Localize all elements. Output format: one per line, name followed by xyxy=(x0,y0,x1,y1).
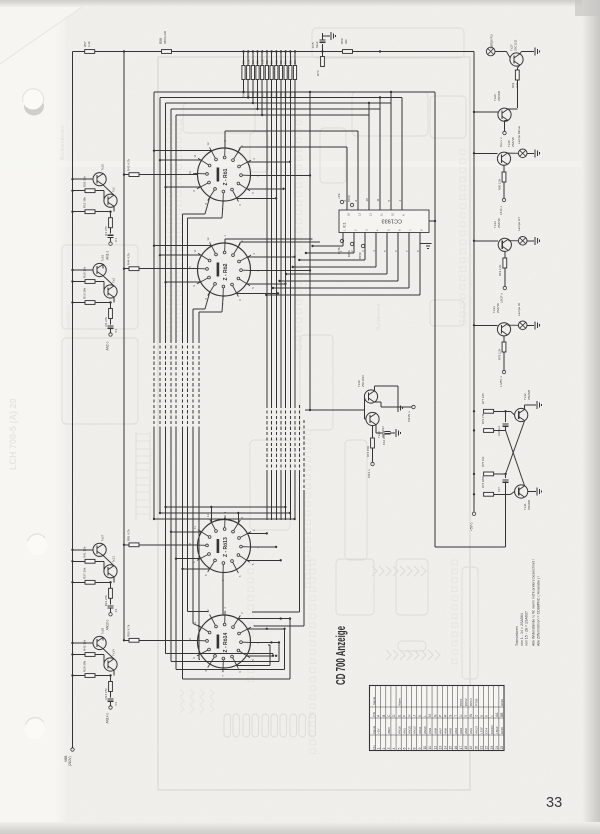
svg-text:2SC828: 2SC828 xyxy=(527,499,531,510)
svg-text:AN6: AN6 xyxy=(444,728,448,734)
svg-text:4: 4 xyxy=(392,747,396,749)
svg-text:2: 2 xyxy=(382,747,386,749)
svg-text:R73: R73 xyxy=(316,70,320,76)
svg-text:BP02: BP02 xyxy=(347,195,351,202)
svg-text:13: 13 xyxy=(438,746,442,750)
svg-text:Tx15: Tx15 xyxy=(101,164,105,171)
svg-text:+5V: +5V xyxy=(377,727,381,734)
svg-text:2SC1211: 2SC1211 xyxy=(514,39,518,51)
svg-text:16: 16 xyxy=(347,213,351,216)
svg-text:17: 17 xyxy=(459,746,463,750)
svg-text:Transistoren: Transistoren xyxy=(515,626,519,646)
svg-text:R78 2,2k: R78 2,2k xyxy=(498,348,502,360)
svg-text:BP00: BP00 xyxy=(347,250,351,257)
svg-text:AN1: AN1 xyxy=(469,728,473,734)
svg-text:25: 25 xyxy=(500,746,504,750)
svg-text:R76 27k: R76 27k xyxy=(481,413,485,424)
svg-text:GND: GND xyxy=(500,726,504,734)
svg-text:C1: C1 xyxy=(114,238,118,242)
svg-text:PIN: PIN xyxy=(372,712,376,717)
svg-text:Z - Rö1: Z - Rö1 xyxy=(223,168,229,185)
svg-text:33: 33 xyxy=(546,795,562,811)
svg-text:11: 11 xyxy=(376,198,380,201)
svg-text:C1: C1 xyxy=(114,608,118,612)
svg-text:24: 24 xyxy=(495,746,499,750)
svg-text:Alle Ziffernröhren = CD88PNC: Alle Ziffernröhren = CD88PNC ( Hivarube … xyxy=(537,576,541,646)
svg-text:11: 11 xyxy=(193,154,197,157)
svg-text:R43 4,7k: R43 4,7k xyxy=(127,159,131,172)
svg-text:R80 2,2k: R80 2,2k xyxy=(498,178,502,190)
svg-text:AN13: AN13 xyxy=(474,726,478,734)
svg-text:10: 10 xyxy=(188,266,192,270)
svg-text:16: 16 xyxy=(454,746,458,750)
svg-text:Z - Rö14: Z - Rö14 xyxy=(223,633,229,653)
svg-text:Signal: Signal xyxy=(372,697,376,705)
svg-text:Z - Rö2: Z - Rö2 xyxy=(223,263,229,280)
svg-text:2,2k: 2,2k xyxy=(515,82,519,88)
svg-text:AN5: AN5 xyxy=(449,728,453,734)
svg-text:12: 12 xyxy=(206,142,210,146)
svg-text:PLTA: PLTA xyxy=(337,247,341,254)
svg-text:Signal: Signal xyxy=(372,726,376,734)
svg-text:39k: 39k xyxy=(279,59,283,64)
svg-text:L M5Y o: L M5Y o xyxy=(499,376,503,387)
svg-text:R41 12k: R41 12k xyxy=(83,546,87,558)
svg-text:R2 27k: R2 27k xyxy=(104,316,108,326)
svg-text:AN1: AN1 xyxy=(402,728,406,734)
svg-text:Z - Rö13: Z - Rö13 xyxy=(223,537,229,557)
svg-text:Alarm: Alarm xyxy=(397,697,401,706)
svg-text:15k: 15k xyxy=(284,59,288,64)
svg-text:11: 11 xyxy=(193,249,197,252)
svg-text:21: 21 xyxy=(480,746,484,750)
svg-text:R75 10k: R75 10k xyxy=(481,456,485,467)
svg-text:15k: 15k xyxy=(270,59,274,64)
svg-text:AN14 o: AN14 o xyxy=(106,713,110,724)
svg-text:CR4 o: CR4 o xyxy=(367,469,371,478)
svg-text:10: 10 xyxy=(188,542,192,546)
svg-text:2SC828: 2SC828 xyxy=(497,90,501,101)
svg-text:(210V): (210V) xyxy=(68,756,72,766)
svg-text:AN15: AN15 xyxy=(408,726,412,734)
svg-text:C17: C17 xyxy=(497,487,501,492)
svg-text:L51F: L51F xyxy=(480,727,484,734)
svg-text:GND: GND xyxy=(500,698,504,706)
svg-text:CR4: CR4 xyxy=(485,728,489,734)
svg-text:Tx1: Tx1 xyxy=(112,187,116,192)
svg-text:62uF: 62uF xyxy=(315,41,319,48)
svg-text:10: 10 xyxy=(188,638,192,642)
svg-text:AN9: AN9 xyxy=(428,728,432,734)
svg-text:15k: 15k xyxy=(246,59,250,64)
svg-text:AN11: AN11 xyxy=(418,726,422,734)
svg-text:10: 10 xyxy=(365,198,369,202)
svg-text:L5GF: L5GF xyxy=(495,726,499,734)
svg-text:L: L xyxy=(423,715,427,717)
svg-text:R77 220: R77 220 xyxy=(481,393,485,404)
svg-text:20: 20 xyxy=(474,746,478,750)
svg-text:R72 15A: R72 15A xyxy=(366,446,370,457)
svg-text:BP01: BP01 xyxy=(459,698,463,706)
svg-text:L51F o: L51F o xyxy=(499,205,503,215)
svg-text:9: 9 xyxy=(418,747,422,749)
svg-text:CD 700 Anzeige: CD 700 Anzeige xyxy=(334,626,348,685)
svg-text:7: 7 xyxy=(408,747,412,749)
svg-text:CR2N: CR2N xyxy=(490,726,494,734)
svg-text:C1: C1 xyxy=(114,328,118,332)
svg-text:1: 1 xyxy=(377,747,381,749)
svg-text:BP04: BP04 xyxy=(469,698,473,706)
svg-text:12: 12 xyxy=(206,237,210,241)
svg-text:AN13 o: AN13 o xyxy=(106,619,110,630)
svg-text:CR2N o: CR2N o xyxy=(407,411,411,422)
svg-text:CC1933: CC1933 xyxy=(381,218,402,224)
svg-text:22: 22 xyxy=(485,746,489,750)
svg-text:+5V o: +5V o xyxy=(469,522,473,531)
svg-text:R14 27k: R14 27k xyxy=(104,688,108,700)
svg-text:680/4,2W: 680/4,2W xyxy=(163,31,167,44)
svg-text:von 1 - 14 = 2SA564: von 1 - 14 = 2SA564 xyxy=(520,613,524,646)
svg-text:R56 4,7k: R56 4,7k xyxy=(127,624,131,637)
svg-text:AN2 o: AN2 o xyxy=(106,341,110,350)
svg-text:10: 10 xyxy=(391,213,395,216)
svg-text:68k: 68k xyxy=(274,59,278,64)
svg-text:unendlicher: unendlicher xyxy=(66,304,72,330)
svg-text:Buchlandlanten: Buchlandlanten xyxy=(60,125,66,160)
svg-text:T: T xyxy=(454,715,458,717)
svg-text:Tx16: Tx16 xyxy=(101,254,105,261)
svg-text:Tx27: Tx27 xyxy=(101,534,105,541)
svg-text:R42 12k: R42 12k xyxy=(83,639,87,651)
svg-text:10: 10 xyxy=(188,171,192,175)
svg-text:R44 4,7k: R44 4,7k xyxy=(127,253,131,266)
svg-text:15k: 15k xyxy=(260,59,264,64)
svg-text:3: 3 xyxy=(387,747,391,749)
svg-text:14: 14 xyxy=(444,746,448,750)
svg-text:39k: 39k xyxy=(288,59,292,64)
svg-text:R1 27k: R1 27k xyxy=(104,226,108,236)
svg-text:12: 12 xyxy=(206,609,210,613)
svg-text:2SC828: 2SC828 xyxy=(527,389,531,400)
svg-text:PT08: PT08 xyxy=(474,698,478,706)
svg-text:AN2: AN2 xyxy=(464,728,468,734)
svg-text:BP06: BP06 xyxy=(358,252,362,259)
svg-text:R13 27k: R13 27k xyxy=(104,595,108,607)
svg-text:R30 12k: R30 12k xyxy=(83,266,87,278)
svg-text:39k: 39k xyxy=(242,59,246,64)
svg-text:Z: Z xyxy=(474,715,478,717)
svg-text:23: 23 xyxy=(490,746,494,750)
svg-text:350V: 350V xyxy=(387,726,391,734)
svg-text:P: P xyxy=(438,715,442,717)
svg-text:+5%: +5% xyxy=(337,193,341,199)
svg-text:Lampe W: Lampe W xyxy=(517,303,521,316)
svg-text:AN8: AN8 xyxy=(433,728,437,734)
svg-text:Lampe Minus: Lampe Minus xyxy=(517,125,521,144)
svg-text:S: S xyxy=(449,715,453,717)
svg-text:R29 12k: R29 12k xyxy=(83,176,87,188)
svg-text:AN1 o: AN1 o xyxy=(106,251,110,260)
svg-text:11: 11 xyxy=(428,746,432,750)
svg-text:R19 2,2k: R19 2,2k xyxy=(498,264,502,276)
svg-text:LCH 700-5 (A) 20: LCH 700-5 (A) 20 xyxy=(8,398,18,470)
svg-text:Tx14: Tx14 xyxy=(112,649,116,656)
svg-text:AN3: AN3 xyxy=(459,728,463,734)
svg-text:AN16: AN16 xyxy=(397,726,401,734)
svg-text:2,2k: 2,2k xyxy=(87,41,91,47)
svg-text:15k: 15k xyxy=(293,59,297,64)
svg-text:L5GF o: L5GF o xyxy=(500,293,504,303)
svg-text:2SA720: 2SA720 xyxy=(511,137,515,147)
svg-text:BP02: BP02 xyxy=(464,698,468,706)
svg-text:R74 6800: R74 6800 xyxy=(481,475,485,488)
svg-text:2SA720: 2SA720 xyxy=(496,303,500,313)
svg-text:von 15 - 28 = 2SA637: von 15 - 28 = 2SA637 xyxy=(525,611,529,646)
svg-text:12: 12 xyxy=(433,746,437,750)
svg-text:10: 10 xyxy=(423,746,427,750)
svg-text:BB: BB xyxy=(500,713,504,717)
svg-text:13: 13 xyxy=(358,213,362,216)
svg-text:19: 19 xyxy=(469,746,473,750)
svg-text:39k: 39k xyxy=(256,59,260,64)
svg-text:Pin: Pin xyxy=(372,745,376,750)
svg-text:Tx2: Tx2 xyxy=(112,278,116,283)
svg-text:2SC1033: 2SC1033 xyxy=(361,375,365,387)
svg-text:C16 220uF: C16 220uF xyxy=(382,431,386,445)
svg-text:Bundesanst: Bundesanst xyxy=(376,303,382,330)
svg-text:B: B xyxy=(382,715,386,717)
svg-text:Ka:/+ o: Ka:/+ o xyxy=(499,137,503,147)
svg-text:12: 12 xyxy=(369,213,373,216)
svg-text:R28 38k: R28 38k xyxy=(83,660,87,672)
svg-text:IC1: IC1 xyxy=(343,222,347,228)
svg-text:15k: 15k xyxy=(251,59,255,64)
svg-text:5: 5 xyxy=(397,747,401,749)
svg-text:W: W xyxy=(469,714,473,717)
svg-text:Alle Widerstände ¼ W, wenn nic: Alle Widerstände ¼ W, wenn nicht anders … xyxy=(532,559,536,646)
svg-text:11: 11 xyxy=(193,526,197,529)
svg-text:Lampe GT: Lampe GT xyxy=(517,217,521,231)
svg-text:39k: 39k xyxy=(344,39,348,44)
svg-text:R55 4,7k: R55 4,7k xyxy=(127,529,131,542)
svg-text:AN4: AN4 xyxy=(454,728,458,734)
svg-text:AN10: AN10 xyxy=(423,726,427,734)
svg-text:2SA720: 2SA720 xyxy=(497,218,501,228)
svg-text:8: 8 xyxy=(413,747,417,749)
svg-text:Tx13: Tx13 xyxy=(112,556,116,563)
svg-text:Tx28: Tx28 xyxy=(101,627,105,634)
svg-text:AN7: AN7 xyxy=(438,728,442,734)
svg-text:18: 18 xyxy=(464,746,468,750)
svg-text:F: F xyxy=(402,715,406,717)
svg-text:E: E xyxy=(397,715,401,717)
svg-text:6: 6 xyxy=(402,747,406,749)
svg-text:R16 38k: R16 38k xyxy=(83,287,87,299)
svg-text:R27 38k: R27 38k xyxy=(83,567,87,579)
svg-text:12: 12 xyxy=(206,514,210,518)
svg-text:AN12: AN12 xyxy=(413,726,417,734)
svg-text:a: a xyxy=(480,715,484,717)
svg-text:M: M xyxy=(428,714,432,717)
svg-text:39k: 39k xyxy=(265,59,269,64)
svg-text:b: b xyxy=(485,715,489,717)
svg-text:C1: C1 xyxy=(114,701,118,705)
svg-text:Lampe Ku: Lampe Ku xyxy=(489,34,493,49)
svg-text:R15 38k: R15 38k xyxy=(83,197,87,209)
svg-text:15: 15 xyxy=(449,746,453,750)
